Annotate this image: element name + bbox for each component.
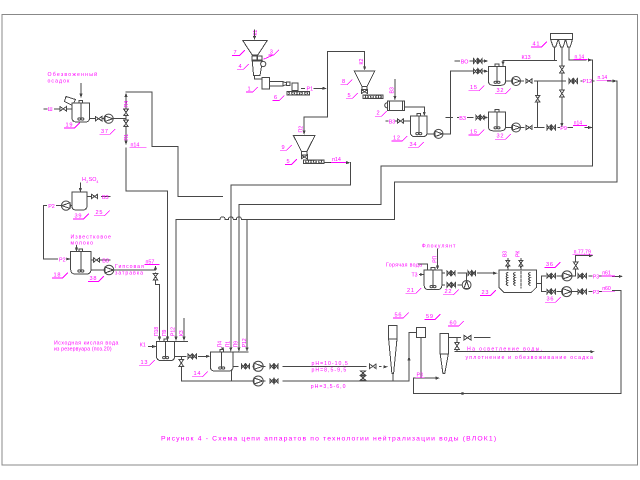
wire alpha п14 to vessel14 feed2 [231, 163, 351, 349]
valve before 56 [370, 364, 377, 369]
svg-text:Обезвоженный: Обезвоженный [48, 71, 99, 78]
wire п14 down to vessel13 feed2 [126, 191, 168, 338]
wire gamma to vessels [176, 182, 394, 337]
wire lower 36 line [541, 291, 545, 293]
wire К13 [503, 61, 557, 67]
arrows into vessel14 [221, 348, 224, 352]
wire feed to funnel 19 [80, 84, 82, 98]
wire флокулянт feed [437, 249, 439, 267]
wire п77 arrow [576, 256, 590, 261]
arrow into hopper 8 [363, 66, 366, 70]
valve tie upper-lower [361, 371, 365, 375]
svg-text:Р1: Р1 [307, 87, 314, 93]
valves ВО [474, 59, 478, 63]
valve after vessel 19 [95, 116, 102, 121]
svg-text:P3: P3 [593, 274, 599, 280]
svg-text:ВЗ: ВЗ [502, 251, 508, 257]
wire Р1 [302, 87, 305, 89]
wire to cyclone 56 [263, 365, 265, 367]
wire P12-п14 return [394, 81, 617, 182]
svg-text:П1: П1 [124, 134, 130, 141]
wire lower pH line [246, 380, 254, 382]
svg-text:pH=8,5-9,5: pH=8,5-9,5 [312, 368, 348, 374]
wire arrow осветление [455, 351, 592, 353]
valves vessel14 out [241, 364, 245, 368]
wire drain vessel13 [180, 356, 182, 358]
arrow into vessel 18 [75, 248, 78, 252]
valves after pump lower [270, 379, 274, 383]
svg-text:ВЗ: ВЗ [102, 195, 109, 201]
arrow P9 п14 [588, 126, 592, 129]
valve п77 branch [574, 262, 578, 269]
valve after pump32l [526, 125, 532, 129]
riser п14 left [125, 96, 127, 141]
svg-text:P12: P12 [242, 338, 248, 347]
wire upper 36 line [541, 275, 545, 277]
svg-text:P9: P9 [560, 126, 567, 132]
valve on riser upper [124, 109, 129, 116]
arrow Т3 [420, 274, 422, 276]
valve drain vessel13 [179, 360, 183, 367]
branch п77-79 [575, 270, 577, 276]
wire P12 line [521, 80, 524, 82]
wire mixer2 to vessel12 [404, 107, 424, 114]
svg-text:П1: П1 [226, 341, 232, 348]
wire P9 line [521, 127, 525, 129]
svg-text:P3: P3 [593, 290, 599, 296]
pump 22 [462, 281, 471, 290]
svg-text:Флокулянт: Флокулянт [422, 244, 457, 250]
wire P3 to cyclone60 [413, 377, 436, 379]
wire vessel13 to vessel14 [175, 355, 186, 357]
svg-text:Рисунок 4 - Схема цепи аппарат: Рисунок 4 - Схема цепи аппаратов по техн… [161, 435, 497, 443]
wire vessel25 to pump39 [71, 205, 72, 207]
svg-text:молоко: молоко [71, 241, 95, 247]
svg-text:ВЗ: ВЗ [389, 119, 396, 125]
svg-text:ВО: ВО [461, 59, 469, 65]
arrow into hopper 7 [253, 36, 256, 40]
svg-text:P2: P2 [59, 257, 66, 263]
vessel 18 [71, 252, 91, 275]
vessel 15 lower [488, 112, 505, 131]
svg-text:Горячая вода: Горячая вода [386, 263, 422, 269]
svg-text:На осветление воды,: На осветление воды, [467, 346, 544, 352]
valves before floc [468, 271, 471, 275]
wire vessel15l to pump32l [506, 127, 512, 129]
wire затравка to vessel13 feed1 [147, 269, 156, 271]
svg-text:из резервуара (поз.20): из резервуара (поз.20) [54, 346, 112, 352]
valve on затравка drop [153, 274, 157, 280]
wire vessel14 out [233, 365, 238, 367]
wire горячая вода [419, 264, 428, 270]
svg-text:К1: К1 [253, 30, 259, 36]
conveyor 6 motor [292, 83, 298, 90]
wire ВЗ inlet lower [446, 117, 453, 119]
svg-text:П4: П4 [217, 341, 223, 348]
pump 36 lower [562, 287, 572, 297]
wire ВО inlet [455, 60, 460, 62]
wire vessel18 to pump38 [91, 269, 104, 271]
svg-text:Гипсовая: Гипсовая [115, 264, 145, 270]
wire vessel12 to pump34 [427, 133, 434, 135]
wire vessel21 bottom out [442, 284, 445, 286]
wire Ш inlet [44, 108, 47, 110]
arrow п57 up [155, 267, 157, 270]
hopper 7 [243, 41, 267, 55]
cyclone 60 [440, 333, 448, 354]
svg-text:Ш: Ш [48, 107, 53, 113]
wire into mixer 2 [394, 79, 396, 97]
floc stub ВЗ [507, 267, 509, 270]
wire after pump36u [572, 275, 576, 277]
wire п14 from screw5 [324, 162, 331, 164]
valve after pump32u [526, 79, 532, 83]
svg-text:РП: РП [432, 255, 438, 262]
wire pump37 to riser [113, 118, 126, 120]
valves 36 upper [547, 274, 551, 278]
hopper 8 [354, 71, 375, 87]
svg-text:П9: П9 [162, 329, 168, 336]
vessel 25 [72, 192, 87, 210]
arrow P12 п14 [613, 79, 617, 82]
wire 56 tip drop [392, 373, 394, 381]
screw 5 middle [304, 160, 325, 164]
svg-text:P12: P12 [583, 79, 593, 85]
valve bunker drop lower [560, 90, 565, 97]
pump 37 [104, 114, 113, 123]
arrow К13 into vessel [501, 62, 504, 66]
arrow into flocculator [493, 272, 497, 275]
wire lime feed [76, 246, 78, 249]
floc stub РК [520, 267, 522, 270]
wire pump34 riser [443, 71, 455, 134]
valves P12 [569, 79, 573, 83]
wire vessel21 top out [442, 272, 444, 274]
svg-text:SO: SO [89, 177, 97, 183]
arrow into hopper 9 [303, 131, 306, 135]
hopper 9 [293, 135, 315, 151]
funnel of vessel 19 [65, 97, 76, 106]
wire bunker middle drop [561, 47, 563, 124]
pump 32 lower [512, 123, 521, 132]
wire into hopper 8 [364, 52, 366, 67]
branch P12 down [537, 81, 539, 128]
wire top-left loop [126, 92, 223, 197]
wire riser to 59 [409, 333, 417, 381]
arrow into mixer 2 [393, 96, 396, 100]
valve ВЗ vessel12 [397, 119, 403, 123]
valve on riser lower [124, 120, 129, 127]
pump 39 [61, 201, 70, 210]
svg-text:ВЗ: ВЗ [459, 116, 466, 122]
arrow флокулянт [436, 266, 439, 270]
valves after pump upper [270, 364, 274, 368]
wire feed4 vessel14 [246, 219, 248, 348]
vessel 21 [424, 270, 442, 290]
bunker battery 41 [551, 34, 573, 40]
svg-text:П9: П9 [234, 341, 240, 348]
valves vessel21 bottom [447, 283, 451, 287]
arrow up riser top [124, 93, 127, 97]
valves after 36u [578, 274, 582, 278]
wire гипсовая затравка [114, 269, 147, 271]
svg-text:4: 4 [96, 180, 98, 184]
arrow into funnel 19 [79, 94, 82, 98]
svg-text:П18: П18 [154, 327, 160, 336]
svg-text:К13: К13 [522, 55, 531, 61]
wire 59 drop [420, 338, 422, 378]
arrow п61 [619, 275, 623, 278]
wire pump22 riser [466, 273, 468, 280]
svg-text:РК: РК [516, 251, 522, 257]
arrow bunker п14 [588, 58, 592, 61]
svg-text:pH=10-10,5: pH=10-10,5 [312, 361, 349, 367]
svg-text:P2: P2 [48, 204, 55, 210]
wire stub hopper7 [254, 30, 256, 37]
arrow down riser [124, 141, 127, 145]
feeder 3 of hopper 7 [252, 56, 257, 60]
vessel 13 [157, 342, 175, 361]
svg-text:Т3: Т3 [412, 272, 418, 278]
vessel 12 [410, 116, 427, 136]
rotary feeder hopper 8 [362, 90, 368, 94]
chute 4 to 1 [255, 76, 264, 80]
valves 13-14 [188, 354, 192, 358]
arrow К1 into vessel 13 [149, 346, 154, 348]
valve on branch [536, 95, 540, 102]
svg-text:P12: P12 [171, 327, 177, 336]
wire п14 trunk east [239, 60, 593, 348]
wire return п60 [413, 290, 621, 393]
pump 40 lower [253, 376, 263, 386]
vessel 15 upper [488, 67, 505, 86]
wire after pump36l [572, 291, 578, 293]
wire Р1 riser [328, 52, 365, 89]
pump 34 [434, 129, 443, 138]
stub К3 vessel13 [183, 319, 185, 338]
rotary feeder hopper 9 [301, 155, 307, 159]
svg-text:осадок: осадок [48, 79, 71, 85]
svg-text:затравка: затравка [115, 271, 144, 277]
branch to осветление [456, 338, 458, 342]
vessel 14 [210, 352, 233, 371]
arrows into vessel13 [158, 337, 161, 341]
valve bunker drop upper [560, 66, 565, 73]
mixer 2 [385, 103, 390, 108]
pump 32 upper [512, 77, 521, 86]
wire P2 riser [57, 205, 62, 207]
valves 36 lower [547, 289, 551, 293]
pump 38 [104, 265, 114, 275]
mill 1 [262, 78, 270, 89]
svg-text:Известковое: Известковое [71, 234, 112, 240]
valve cyclone60 outlet [464, 335, 471, 340]
valves P9 [547, 125, 551, 129]
arrow into vessel 25 [79, 188, 82, 192]
wire H2SO4 feed [79, 183, 81, 190]
wire riser inlet upper [451, 70, 474, 72]
valves vessel21 top [447, 271, 451, 275]
stub vessel14 bottom [231, 371, 233, 381]
arrow P2 into vessel18 [67, 258, 70, 260]
valves ВЗ lower [476, 115, 480, 119]
valve ВЗ vessel18 [94, 258, 100, 262]
valve ВЗ vessel25 [92, 194, 98, 198]
svg-text:К1: К1 [140, 343, 146, 349]
svg-text:П4: П4 [124, 101, 130, 108]
mill feeder 4 [252, 61, 262, 76]
wire floc outlet split [537, 282, 542, 284]
conveyor 6 [287, 92, 310, 95]
valve branch осветление [455, 342, 460, 349]
arrow into 56 [384, 365, 388, 368]
wire ВЗ vessel18 [91, 259, 93, 261]
screw 5 upper [363, 95, 383, 99]
vessel 19 [72, 103, 90, 122]
wire ВЗ vessel12 [386, 120, 388, 122]
pump 40 upper [253, 361, 263, 371]
svg-text:уплотнение и обезвоживание оса: уплотнение и обезвоживание осадка [466, 355, 595, 361]
wire riser to lower vessel [450, 118, 452, 134]
svg-text:ВЗ: ВЗ [102, 258, 109, 264]
svg-text:К3: К3 [179, 330, 185, 336]
svg-text:pH=3,5-6,0: pH=3,5-6,0 [311, 384, 347, 390]
arrow Р1 [315, 87, 324, 89]
valves after 36l [578, 289, 582, 293]
pump 36 upper [562, 271, 572, 281]
wire cyclone60 outlet [448, 337, 460, 339]
valves riser upper [474, 69, 478, 73]
valve on Ш inlet [60, 107, 67, 112]
wire vessel15u to pump32u [506, 80, 512, 82]
wire ВЗ out of vessel 25 [87, 195, 91, 197]
svg-text:Исходная кислая вода: Исходная кислая вода [54, 340, 119, 346]
wire К13 from bunker [554, 47, 556, 61]
wire vessel19 to pump37 [90, 118, 104, 120]
wire bunker п14 [569, 47, 586, 60]
ejector 59 [417, 327, 426, 337]
flocculator 23 [499, 270, 537, 293]
clarifier 56 [389, 326, 397, 339]
